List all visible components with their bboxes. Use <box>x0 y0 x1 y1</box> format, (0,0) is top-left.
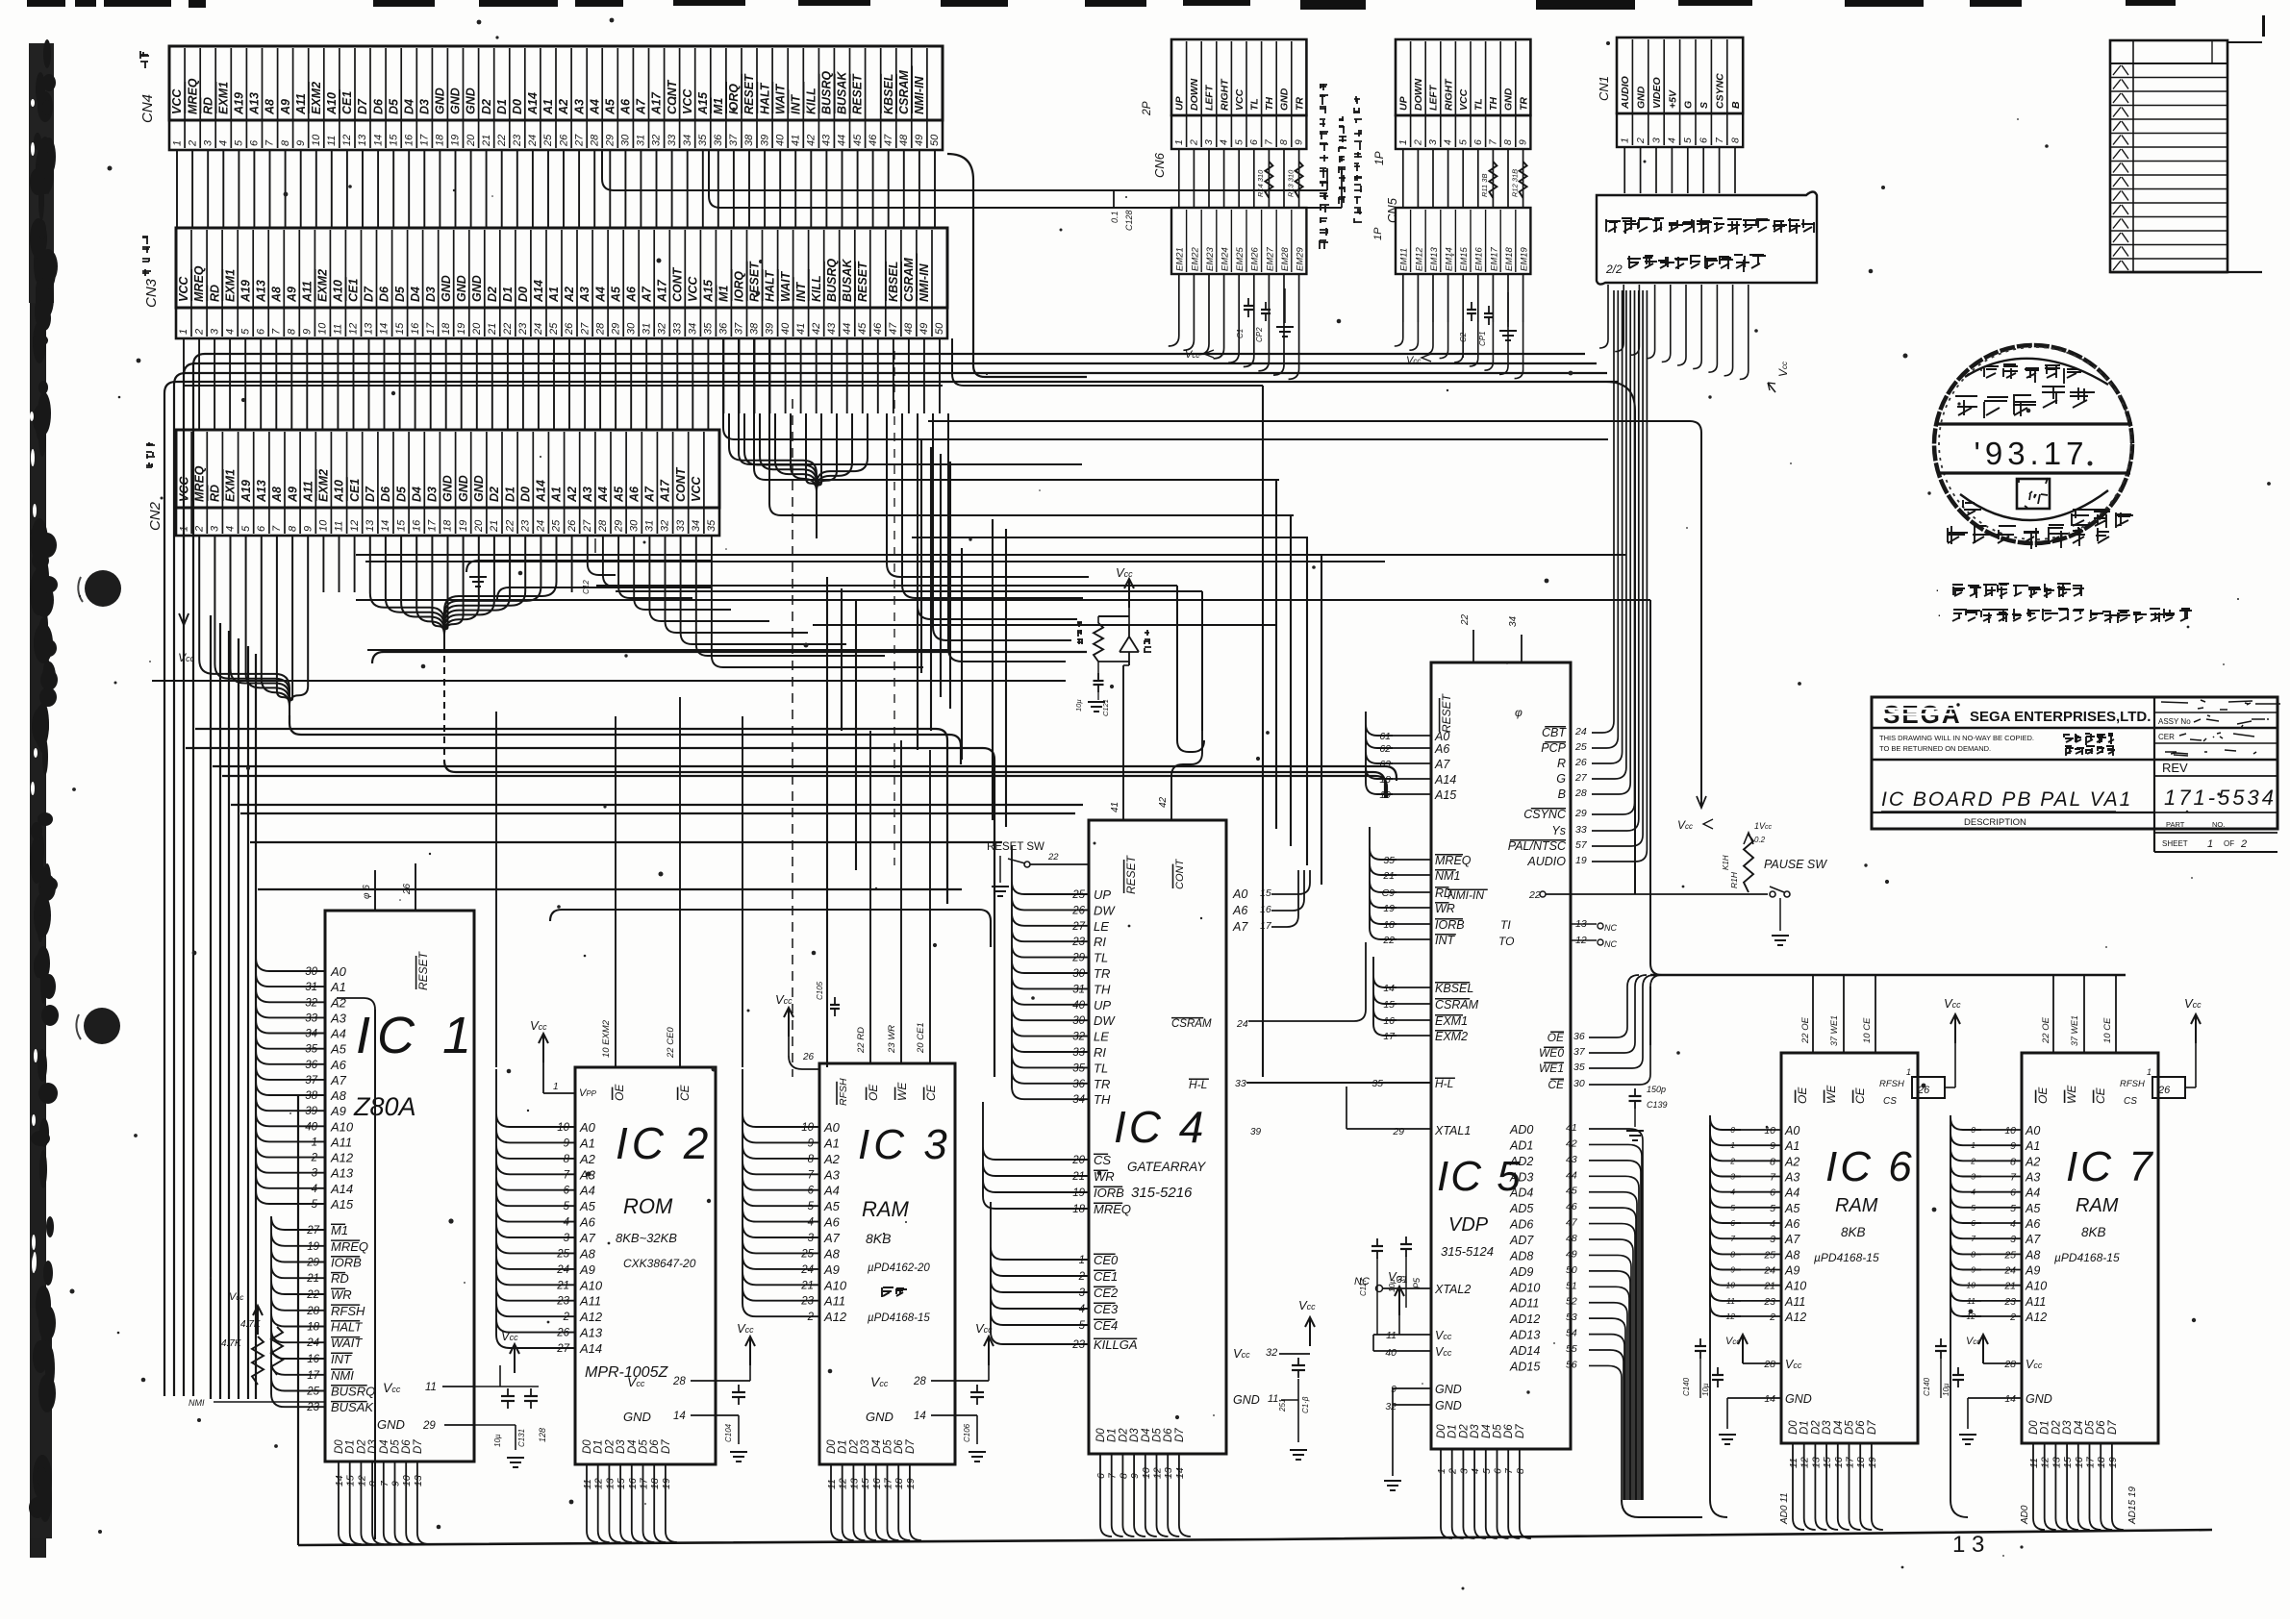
svg-text:D5: D5 <box>639 1439 650 1454</box>
wire CN3 pins 36-39 east bends <box>723 338 1608 515</box>
connector CN6 side label <box>1140 101 1167 178</box>
IC3 address left pins <box>769 1120 847 1324</box>
svg-text:INT: INT <box>1435 934 1456 947</box>
svg-text:45: 45 <box>852 134 864 146</box>
svg-text:LE: LE <box>1094 1030 1109 1044</box>
svg-text:C12: C12 <box>582 580 591 594</box>
IC6 RFSH CS pin box <box>1879 1067 1955 1107</box>
svg-text:A7: A7 <box>1434 758 1450 771</box>
svg-text:41: 41 <box>1110 802 1120 812</box>
svg-text:42: 42 <box>1566 1137 1577 1149</box>
IC7 data pins D0-D7 <box>2028 1420 2124 1530</box>
svg-text:φ: φ <box>1515 706 1522 719</box>
svg-text:A6: A6 <box>627 486 641 503</box>
svg-text:A10: A10 <box>579 1278 603 1292</box>
svg-text:11: 11 <box>2028 1458 2040 1468</box>
wire trunk y946 <box>550 910 991 947</box>
svg-text:A13: A13 <box>330 1166 354 1181</box>
svg-text:23: 23 <box>2003 1296 2016 1308</box>
wire diode junction to IC4 pin 41 <box>1123 664 1129 666</box>
svg-text:18: 18 <box>1379 774 1391 786</box>
svg-text:A8: A8 <box>1784 1248 1799 1262</box>
svg-text:D5: D5 <box>1845 1420 1856 1435</box>
svg-text:19: 19 <box>905 1478 917 1489</box>
IC5 left address pins <box>1379 730 1456 802</box>
svg-text:A6: A6 <box>2025 1217 2040 1231</box>
svg-text:EXM1: EXM1 <box>224 469 238 502</box>
svg-text:10µ: 10µ <box>1074 699 1083 712</box>
svg-text:ASSY No: ASSY No <box>2158 717 2191 726</box>
svg-text:42: 42 <box>811 323 822 335</box>
svg-text:37 WE1: 37 WE1 <box>1829 1015 1839 1046</box>
svg-text:9: 9 <box>302 329 314 335</box>
svg-text:15: 15 <box>860 1478 871 1489</box>
IC7 address pins <box>1967 1124 2048 1324</box>
svg-text:D2: D2 <box>604 1439 616 1454</box>
svg-text:13: 13 <box>2051 1457 2062 1468</box>
svg-text:A1: A1 <box>330 980 346 994</box>
svg-text:A7: A7 <box>823 1231 841 1245</box>
svg-text:16: 16 <box>307 1354 319 1365</box>
capacitor C131 C132 at IC1 <box>474 1329 547 1467</box>
svg-text:A6: A6 <box>624 286 638 303</box>
svg-text:C106: C106 <box>963 1423 971 1442</box>
svg-text:AD5: AD5 <box>1509 1202 1533 1215</box>
svg-text:C1: C1 <box>1236 329 1245 338</box>
svg-text:EM12: EM12 <box>1414 246 1424 271</box>
svg-text:A8: A8 <box>579 1246 596 1261</box>
svg-text:32: 32 <box>651 135 663 146</box>
svg-text:C1·β: C1·β <box>1301 1396 1310 1413</box>
wire CN2 other pins down <box>323 536 571 592</box>
wire trunk bus across page y=370-400 <box>164 354 1635 1396</box>
svg-text:CONT: CONT <box>674 466 688 502</box>
wire trunk bus left-to-right middle <box>186 615 1397 1399</box>
svg-text:D3: D3 <box>2062 1420 2074 1435</box>
svg-text:D7: D7 <box>905 1439 917 1454</box>
svg-text:CE: CE <box>2094 1087 2107 1104</box>
svg-text:WAIT: WAIT <box>331 1336 363 1350</box>
approval stamp circle <box>1934 345 2133 549</box>
wire trunk corners at IC4 top <box>1177 586 1204 752</box>
svg-text:5: 5 <box>2010 1203 2016 1214</box>
svg-text:CP2: CP2 <box>1255 327 1264 342</box>
svg-text:A12: A12 <box>1784 1311 1806 1324</box>
svg-text:9: 9 <box>295 140 307 146</box>
svg-text:D2: D2 <box>1458 1424 1470 1438</box>
svg-text:EM29: EM29 <box>1296 246 1306 271</box>
ground at PAUSE SW <box>1772 898 1789 945</box>
svg-text:A15: A15 <box>1434 788 1456 802</box>
svg-text:R13 310: R13 310 <box>1286 169 1295 197</box>
svg-text:29: 29 <box>610 323 621 336</box>
svg-text:·: · <box>1937 607 1942 622</box>
svg-text:44: 44 <box>837 135 848 146</box>
svg-text:32: 32 <box>305 997 317 1009</box>
IC2 address left pins <box>527 1120 603 1356</box>
svg-text:3: 3 <box>209 328 220 335</box>
svg-text:19: 19 <box>1383 903 1395 914</box>
IC3 bus riser <box>742 716 743 1067</box>
IC3 RFSH OE WE CE top labels <box>775 731 938 1106</box>
svg-text:KBSEL: KBSEL <box>887 262 900 302</box>
svg-text:RFSH: RFSH <box>2120 1079 2145 1089</box>
svg-text:D6: D6 <box>401 1439 413 1454</box>
svg-text:5: 5 <box>240 525 252 532</box>
svg-text:CN6: CN6 <box>1152 152 1167 178</box>
svg-text:A1: A1 <box>541 99 555 115</box>
IC5 left select pins <box>1383 982 1478 1043</box>
capacitors C117 C118 at IC5 <box>1359 1237 1422 1335</box>
svg-text:A3: A3 <box>572 99 586 115</box>
IC5 data pins D0-D7 <box>1436 1424 1531 1538</box>
svg-text:NC: NC <box>1604 939 1617 949</box>
svg-text:AD6: AD6 <box>1509 1218 1533 1232</box>
svg-text:1: 1 <box>1397 139 1409 145</box>
svg-text:31: 31 <box>641 323 652 335</box>
capacitor C139 150p at IC5 CE <box>1626 1085 1668 1140</box>
IC6 data pins D0-D7 <box>1788 1420 1883 1530</box>
svg-text:47: 47 <box>888 322 899 335</box>
svg-text:AD13: AD13 <box>1509 1329 1540 1342</box>
svg-text:34: 34 <box>691 520 702 532</box>
svg-text:D4: D4 <box>2074 1420 2085 1435</box>
svg-text:6: 6 <box>1493 1468 1504 1474</box>
svg-text:K1H: K1H <box>1722 855 1730 870</box>
wire left vertical at IC1 <box>337 998 375 1539</box>
svg-text:52: 52 <box>1566 1296 1577 1308</box>
IC4 chip selects left pins <box>1068 1253 1138 1352</box>
svg-text:25: 25 <box>2003 1249 2016 1261</box>
svg-text:15: 15 <box>1260 887 1271 899</box>
svg-text:11: 11 <box>333 324 344 335</box>
svg-text:1P: 1P <box>1372 227 1384 240</box>
svg-text:CN3: CN3 <box>143 278 160 308</box>
svg-text:CS: CS <box>1094 1153 1111 1167</box>
svg-text:D5: D5 <box>394 486 408 502</box>
svg-text:XTAL1: XTAL1 <box>1434 1124 1471 1137</box>
svg-text:19: 19 <box>456 323 467 335</box>
svg-text:1: 1 <box>171 140 183 146</box>
svg-text:BUSRQ: BUSRQ <box>825 259 839 302</box>
IC4 bus ctrl lead fan <box>983 1102 1066 1209</box>
svg-text:A5: A5 <box>2025 1202 2040 1215</box>
svg-text:A15: A15 <box>696 91 710 115</box>
svg-text:37: 37 <box>305 1075 317 1087</box>
svg-text:INT: INT <box>789 94 802 115</box>
svg-text:4: 4 <box>2010 1218 2016 1230</box>
svg-text:17: 17 <box>1383 1031 1396 1042</box>
svg-text:A5: A5 <box>612 486 625 503</box>
svg-text:GND: GND <box>1435 1383 1462 1396</box>
svg-text:D0: D0 <box>518 487 532 502</box>
svg-text:39: 39 <box>759 135 770 146</box>
svg-text:Vcc: Vcc <box>1435 1329 1452 1342</box>
svg-text:48: 48 <box>903 322 915 335</box>
svg-text:EM15: EM15 <box>1459 246 1470 271</box>
svg-text:A3: A3 <box>330 1011 347 1025</box>
svg-text:315-5124: 315-5124 <box>1441 1244 1494 1259</box>
svg-text:24: 24 <box>800 1264 814 1276</box>
svg-text:8KB~32KB: 8KB~32KB <box>616 1231 677 1245</box>
svg-text:C140: C140 <box>1923 1377 1931 1396</box>
svg-text:6: 6 <box>256 525 267 532</box>
svg-text:A1: A1 <box>2025 1139 2040 1153</box>
svg-text:VIDEO: VIDEO <box>1651 77 1663 109</box>
svg-text:Vcc: Vcc <box>1406 355 1421 366</box>
svg-text:38: 38 <box>305 1090 317 1102</box>
svg-text:GND: GND <box>457 475 470 502</box>
svg-text:4.7K: 4.7K <box>221 1338 242 1349</box>
IC5 H-L pin <box>1371 1077 1455 1090</box>
svg-text:9: 9 <box>808 1137 815 1149</box>
svg-text:19: 19 <box>307 1241 319 1253</box>
svg-text:2: 2 <box>187 140 198 147</box>
svg-text:φ 6: φ 6 <box>362 885 372 899</box>
connector CN5 numbers <box>1397 138 1529 146</box>
svg-text:A2: A2 <box>823 1152 841 1166</box>
svg-text:TR: TR <box>1294 97 1305 111</box>
svg-text:4: 4 <box>564 1217 569 1229</box>
svg-text:A12: A12 <box>579 1310 603 1324</box>
svg-text:AD14: AD14 <box>1509 1344 1540 1358</box>
svg-text:49: 49 <box>1566 1248 1577 1260</box>
svg-text:CSRAM: CSRAM <box>897 70 911 114</box>
svg-text:32: 32 <box>1385 1401 1397 1412</box>
svg-text:11: 11 <box>334 521 345 532</box>
svg-text:2/2: 2/2 <box>1605 262 1623 276</box>
svg-text:XTAL2: XTAL2 <box>1434 1283 1471 1296</box>
svg-text:22 CE0: 22 CE0 <box>666 1027 676 1059</box>
svg-text:25: 25 <box>548 322 560 336</box>
svg-text:35: 35 <box>1573 1062 1585 1073</box>
scan edge strip left <box>29 39 59 1558</box>
svg-text:Vcc: Vcc <box>1966 1336 1980 1347</box>
svg-text:D6: D6 <box>1163 1428 1174 1442</box>
svg-text:CN2: CN2 <box>147 501 164 531</box>
svg-text:DW: DW <box>1094 1013 1116 1028</box>
svg-text:2: 2 <box>1769 1312 1775 1323</box>
svg-text:20: 20 <box>466 134 477 147</box>
title block frame <box>1872 697 2277 852</box>
svg-text:A0: A0 <box>330 964 347 979</box>
svg-text:A7: A7 <box>330 1073 347 1087</box>
svg-text:EM16: EM16 <box>1474 246 1485 271</box>
svg-text:D0: D0 <box>2028 1420 2040 1435</box>
svg-text:D0: D0 <box>582 1439 593 1454</box>
svg-text:NMI: NMI <box>189 1398 205 1408</box>
svg-text:15: 15 <box>345 1475 357 1487</box>
svg-text:26: 26 <box>1071 905 1085 916</box>
svg-text:D1: D1 <box>2040 1420 2051 1435</box>
svg-text:D0: D0 <box>511 99 524 114</box>
IC6 address pins <box>1726 1124 1807 1324</box>
svg-text:33: 33 <box>675 519 687 532</box>
svg-text:36: 36 <box>1573 1031 1585 1042</box>
top scan dashes <box>27 0 2265 37</box>
resistor R13 310 on CN6 pin9 <box>1286 162 1302 198</box>
svg-text:AD7: AD7 <box>1509 1234 1534 1247</box>
svg-text:2: 2 <box>1413 139 1424 146</box>
svg-text:3: 3 <box>312 1168 318 1180</box>
svg-text:D3: D3 <box>418 99 432 114</box>
svg-text:A14: A14 <box>535 480 548 503</box>
svg-text:TO: TO <box>1498 935 1514 948</box>
IC5 NMI-IN pin and wire to pause switch <box>1447 888 1768 902</box>
svg-text:C140: C140 <box>1682 1377 1691 1396</box>
svg-text:26: 26 <box>2157 1085 2171 1096</box>
svg-text:22: 22 <box>1460 613 1471 626</box>
wire CN1 Vcc label <box>1768 362 1790 392</box>
svg-text:A3: A3 <box>578 287 591 303</box>
svg-text:D5: D5 <box>387 98 400 114</box>
svg-text:18: 18 <box>1383 919 1395 931</box>
connector CN3 body <box>176 228 947 338</box>
svg-text:4: 4 <box>1470 1468 1481 1474</box>
IC5 left selects lead fan <box>1373 957 1397 1036</box>
capacitors C1 CP2 under CN6 <box>1236 298 1271 342</box>
svg-text:A2: A2 <box>563 287 576 303</box>
svg-text:GND: GND <box>465 87 478 114</box>
wire funnel CN2 left pins <box>199 536 961 764</box>
svg-text:5: 5 <box>1079 1320 1086 1332</box>
svg-text:21: 21 <box>800 1280 814 1291</box>
svg-text:32: 32 <box>660 520 671 532</box>
svg-text:8: 8 <box>287 328 298 335</box>
svg-text:A8: A8 <box>264 99 277 115</box>
svg-text:R11 3B: R11 3B <box>1480 174 1489 197</box>
svg-text:D0: D0 <box>334 1439 345 1454</box>
svg-text:22: 22 <box>1047 852 1059 862</box>
svg-text:CE1: CE1 <box>340 91 354 114</box>
svg-text:3: 3 <box>2010 1234 2016 1245</box>
svg-text:33: 33 <box>672 322 684 335</box>
svg-text:15: 15 <box>2062 1457 2074 1468</box>
svg-text:AUDIO: AUDIO <box>1620 76 1631 110</box>
svg-text:7: 7 <box>808 1169 815 1181</box>
svg-text:47: 47 <box>883 134 894 146</box>
svg-text:D4: D4 <box>379 1439 390 1454</box>
svg-text:24: 24 <box>533 323 544 336</box>
svg-text:Vcc: Vcc <box>1785 1358 1802 1371</box>
svg-text:32: 32 <box>657 323 668 335</box>
svg-text:A0: A0 <box>1434 730 1449 743</box>
svg-text:CP1: CP1 <box>1478 331 1487 346</box>
connector CN1 body <box>1617 37 1743 147</box>
svg-text:D7: D7 <box>661 1439 672 1454</box>
svg-text:PCP: PCP <box>1541 741 1566 755</box>
svg-text:14: 14 <box>673 1411 686 1422</box>
svg-text:31: 31 <box>644 520 656 532</box>
IC5 XTAL1 pin <box>1346 1087 1471 1137</box>
svg-text:29: 29 <box>1071 953 1085 964</box>
svg-text:10: 10 <box>2004 1125 2016 1137</box>
svg-text:16: 16 <box>404 134 415 146</box>
svg-text:AD0: AD0 <box>1509 1123 1533 1137</box>
svg-text:A9: A9 <box>279 99 292 115</box>
svg-text:D2: D2 <box>1118 1428 1129 1442</box>
svg-text:AD12: AD12 <box>1509 1312 1540 1326</box>
svg-text:CN4: CN4 <box>139 94 156 123</box>
svg-text:26: 26 <box>566 519 578 533</box>
Vcc arrow under CN6 <box>1185 349 1214 361</box>
svg-text:17: 17 <box>427 519 439 532</box>
svg-text:11: 11 <box>326 136 338 146</box>
wire CN5 bundle sweep to trunk <box>1395 322 1523 379</box>
svg-text:EM24: EM24 <box>1220 247 1231 271</box>
svg-text:EM27: EM27 <box>1265 246 1275 271</box>
switch PAUSE SW <box>1764 858 1827 897</box>
svg-text:D3: D3 <box>367 1439 379 1454</box>
svg-text:D2: D2 <box>480 99 493 114</box>
svg-text:AD10: AD10 <box>1509 1281 1540 1294</box>
svg-text:INT: INT <box>331 1352 352 1366</box>
svg-text:1: 1 <box>1079 1255 1085 1266</box>
svg-text:NMI: NMI <box>331 1368 354 1383</box>
svg-text:63: 63 <box>1379 759 1391 770</box>
svg-text:GND: GND <box>1503 87 1515 111</box>
svg-text:10µ: 10µ <box>1388 1279 1397 1292</box>
svg-text:GND: GND <box>441 475 455 502</box>
svg-text:A5: A5 <box>604 98 617 115</box>
svg-text:KILL: KILL <box>810 275 823 302</box>
svg-text:25: 25 <box>551 519 563 533</box>
svg-text:8: 8 <box>1278 139 1290 145</box>
svg-text:13: 13 <box>364 322 375 335</box>
svg-text:3: 3 <box>1770 1234 1775 1245</box>
svg-text:17: 17 <box>2085 1456 2097 1468</box>
svg-text:GND: GND <box>455 275 468 302</box>
capacitors at IC7 <box>1923 1338 1964 1398</box>
svg-text:5: 5 <box>1457 139 1469 145</box>
svg-text:GND: GND <box>440 275 453 302</box>
svg-text:A9: A9 <box>579 1262 595 1277</box>
svg-text:2: 2 <box>1189 139 1200 146</box>
svg-text:IORB: IORB <box>1435 918 1465 932</box>
svg-text:23: 23 <box>519 519 531 533</box>
svg-text:A10: A10 <box>325 92 339 115</box>
svg-text:11: 11 <box>1788 1458 1799 1468</box>
svg-text:A0: A0 <box>1784 1124 1799 1137</box>
SEGA logo <box>1883 700 1962 729</box>
svg-text:24: 24 <box>1763 1265 1775 1277</box>
svg-text:25: 25 <box>1071 889 1085 901</box>
svg-text:C128: C128 <box>1124 210 1134 231</box>
svg-text:D5: D5 <box>883 1439 894 1454</box>
crease dashed vertical lines <box>793 351 894 1077</box>
svg-text:P5: P5 <box>1412 1277 1422 1288</box>
svg-text:8: 8 <box>808 1154 815 1165</box>
svg-text:30: 30 <box>1573 1078 1585 1089</box>
svg-text:4: 4 <box>218 140 230 146</box>
svg-text:A17: A17 <box>655 279 668 303</box>
svg-text:2: 2 <box>563 1312 570 1323</box>
svg-text:8: 8 <box>1118 1473 1129 1479</box>
wire CN6 EM box down and sweep west <box>1169 274 1299 379</box>
svg-text:10: 10 <box>1141 1467 1152 1479</box>
svg-text:OE: OE <box>867 1084 880 1101</box>
svg-text:WR: WR <box>1094 1169 1115 1184</box>
svg-text:12: 12 <box>348 323 360 335</box>
connector CN3 pin name labels <box>177 254 931 304</box>
svg-text:AD8: AD8 <box>1509 1249 1533 1262</box>
svg-text:D1: D1 <box>1447 1424 1459 1438</box>
svg-text:A15: A15 <box>330 1197 354 1212</box>
svg-text:0.2: 0.2 <box>1754 836 1766 844</box>
svg-text:10: 10 <box>317 322 329 335</box>
svg-text:25: 25 <box>800 1248 814 1260</box>
svg-text:C117: C117 <box>1359 1278 1368 1296</box>
